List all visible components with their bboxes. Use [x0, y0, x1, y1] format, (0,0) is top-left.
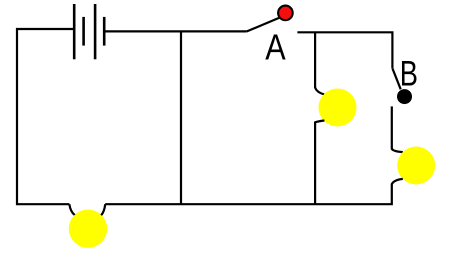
- wire: middle branch vertical (node between top and bottom rails): [180, 31, 182, 204]
- battery B1 (two cells): [74, 4, 104, 59]
- lamp L3 left lead: [69, 204, 75, 215]
- wire: battery positive to switch A: [104, 30, 246, 32]
- svg-text:B: B: [400, 54, 418, 93]
- lamp L3 bulb: [69, 210, 107, 248]
- svg-text:A: A: [265, 28, 286, 68]
- lamp L2 bulb: [397, 147, 435, 185]
- switch A lever (open): [247, 18, 280, 32]
- wire: lamp L1 branch lower segment: [314, 122, 316, 205]
- lamp L2 upper lead: [392, 149, 403, 152]
- wire: lamp L1 branch upper segment: [314, 32, 316, 88]
- switch B lever (open): [392, 68, 400, 89]
- lamp L1 lower lead: [315, 121, 324, 123]
- lamp L3 right lead: [101, 204, 105, 215]
- wire: switch A output along top to right branch, corner down to switch B: [297, 32, 392, 68]
- lamp L1 upper lead: [315, 88, 324, 95]
- wire: switch B lower terminal to lamp L2: [391, 106, 393, 149]
- wire: left rail (battery negative, down left side, along bottom to lamp L3): [17, 29, 74, 204]
- wire: lamp L2 down, corner, bottom rail back to lamp L3: [105, 184, 392, 205]
- lamp L1 bulb: [319, 89, 357, 127]
- lamp L2 lower lead: [392, 179, 403, 184]
- switch B contact (black dot): [397, 89, 412, 104]
- switch A contact (red dot): [278, 6, 293, 21]
